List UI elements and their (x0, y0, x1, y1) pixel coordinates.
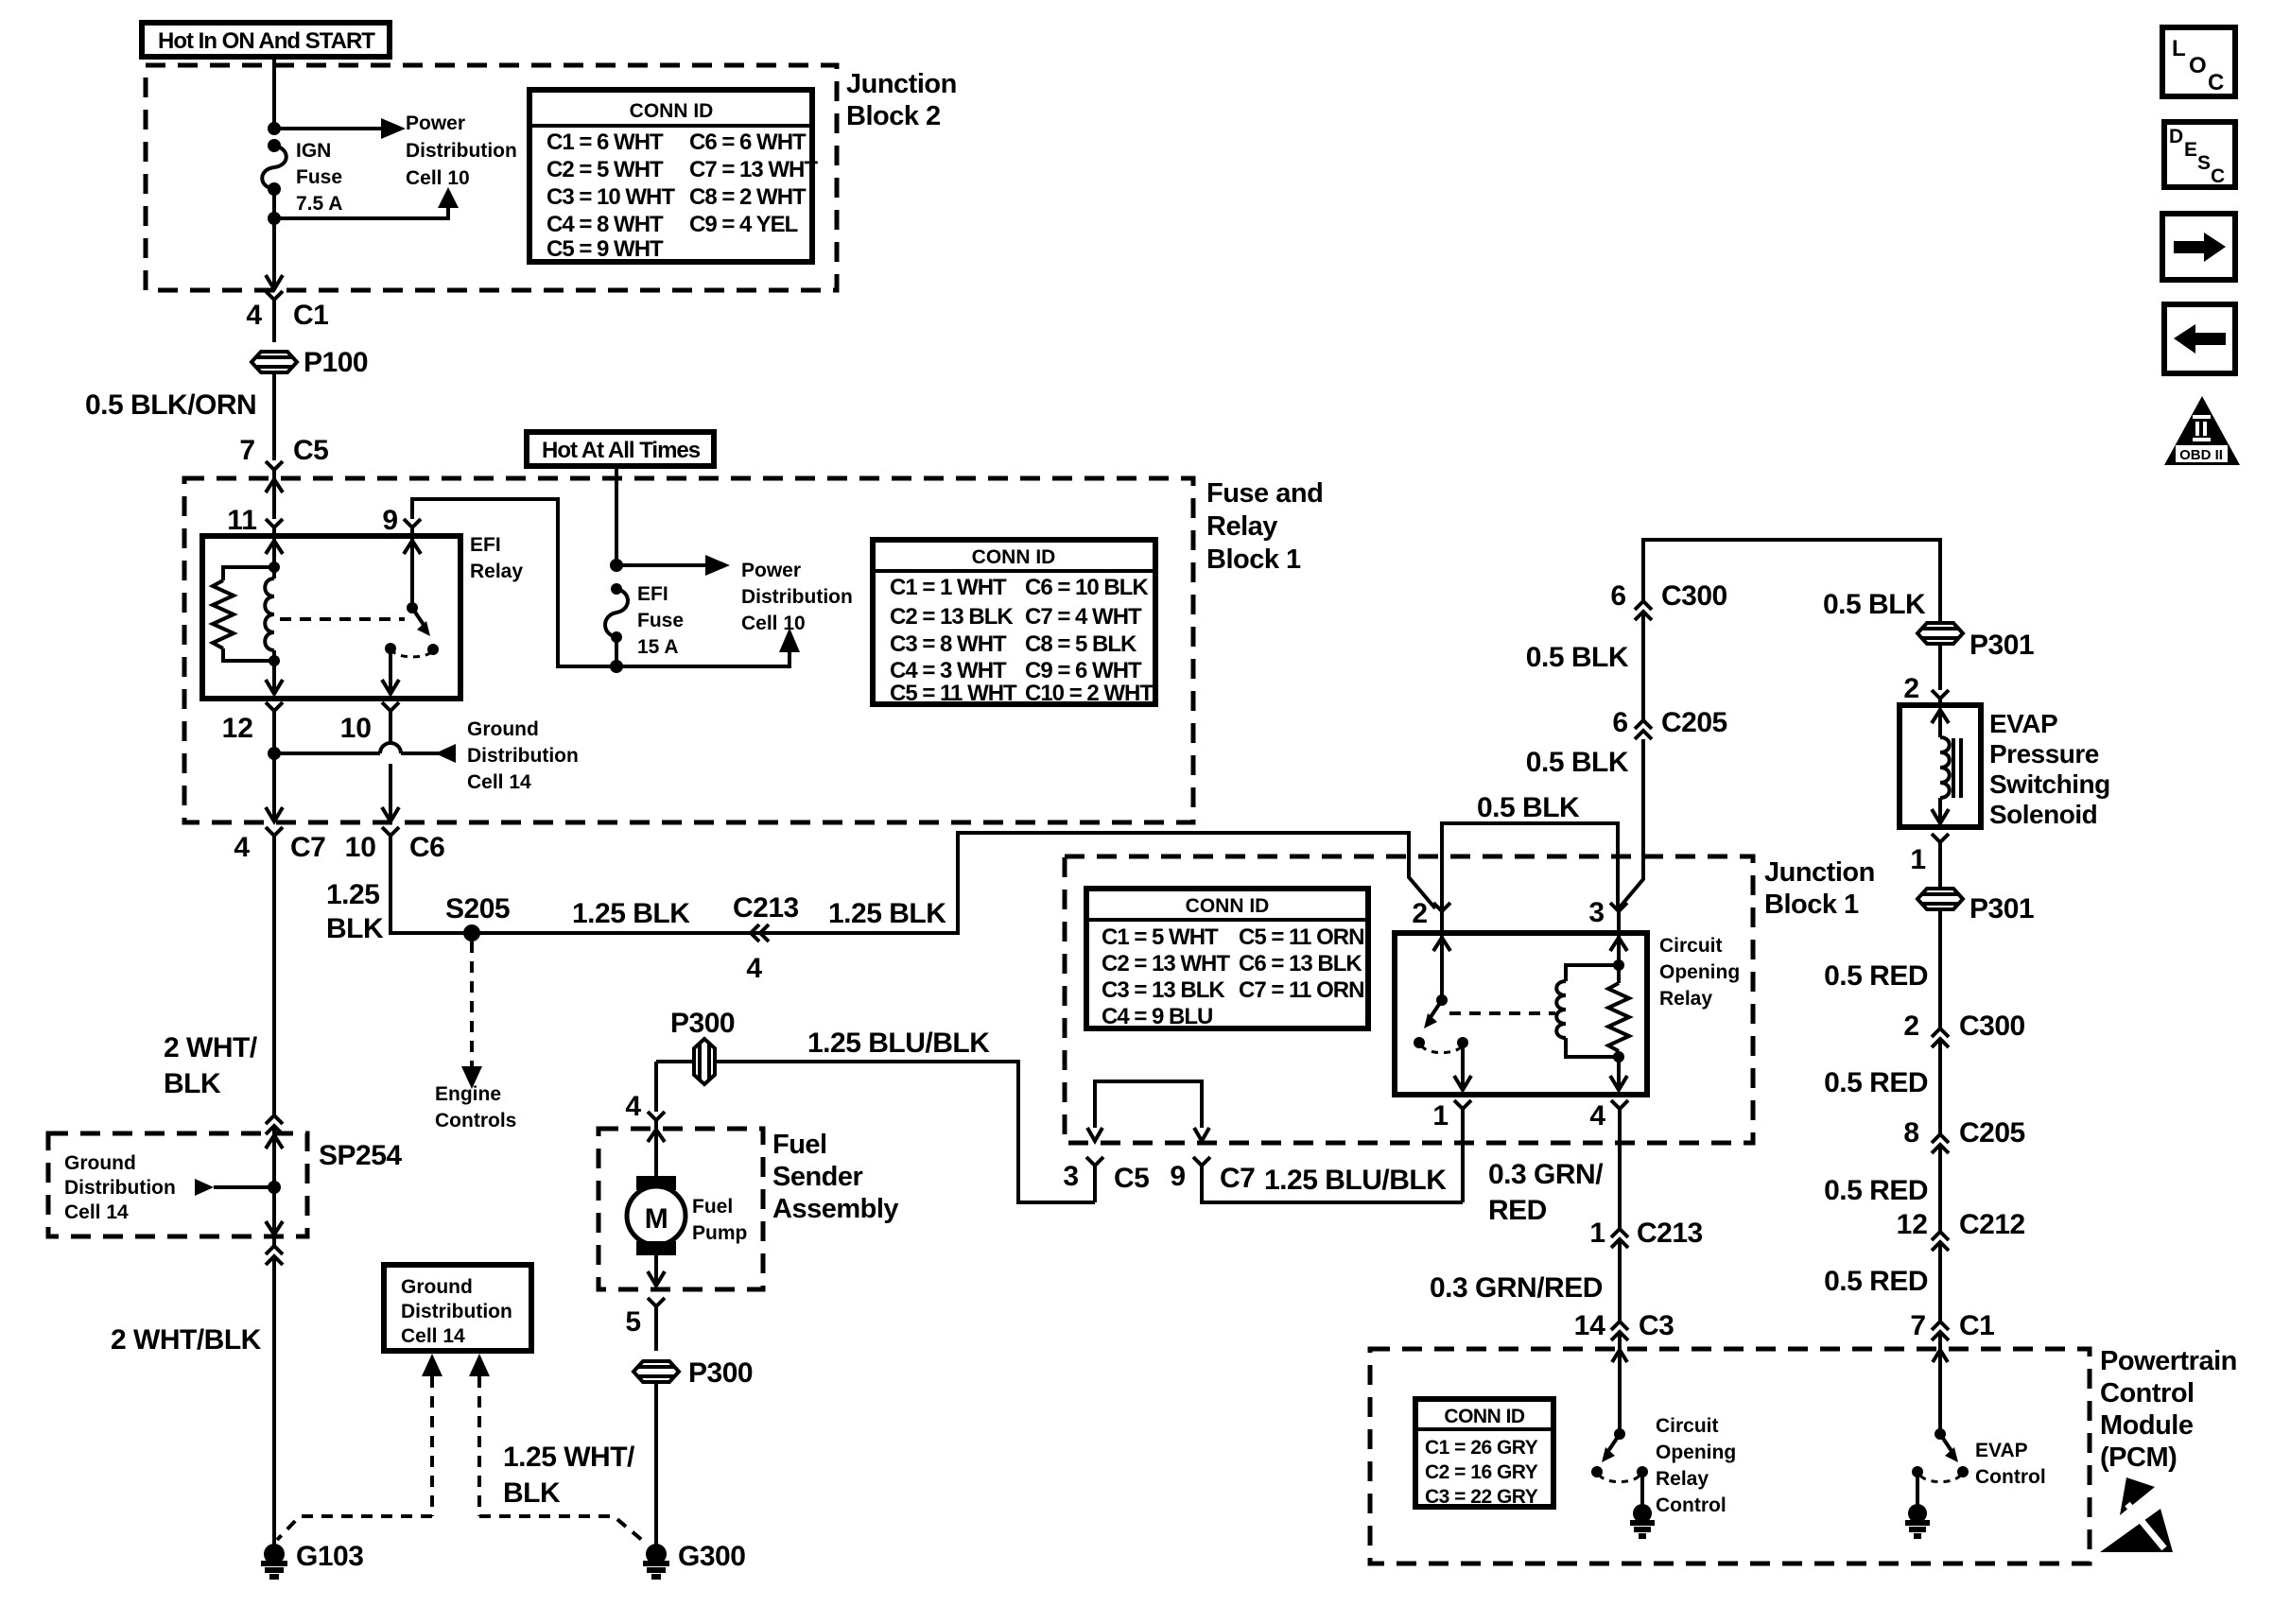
pin 10 connector below relay (340, 702, 399, 821)
Hot In ON And START title box (142, 23, 390, 57)
svg-text:C212: C212 (1959, 1209, 2025, 1240)
connector C300 pin 2 (1903, 1011, 2024, 1134)
connector C205 pin 6 (1612, 707, 1726, 739)
svg-text:C7 = 4 WHT: C7 = 4 WHT (1025, 604, 1142, 630)
svg-text:P301: P301 (1969, 893, 2034, 924)
svg-text:C3 = 10 WHT: C3 = 10 WHT (547, 184, 675, 210)
svg-text:Cell 14: Cell 14 (401, 1325, 465, 1347)
connector C3 pin 14 (1574, 1310, 1674, 1349)
svg-text:Pressure: Pressure (1989, 739, 2099, 769)
svg-text:D: D (2169, 126, 2183, 147)
connector pin 1 below EVAP solenoid (1910, 834, 1949, 889)
svg-text:C2 = 16 GRY: C2 = 16 GRY (1425, 1461, 1538, 1483)
svg-text:Module: Module (2100, 1410, 2194, 1441)
icon arrow right (2162, 214, 2235, 280)
svg-text:Assembly: Assembly (772, 1194, 898, 1224)
svg-text:Opening: Opening (1656, 1442, 1736, 1463)
CONN ID table (Junction Block 1) (1086, 889, 1368, 1029)
svg-text:IGN: IGN (296, 140, 331, 162)
wire branch arrow to Power Distribution Cell 10 (274, 112, 517, 189)
EFI relay box (202, 536, 460, 699)
connector C5 pin 7 (239, 435, 328, 478)
ground G103 (261, 1541, 363, 1577)
svg-text:C6 = 6 WHT: C6 = 6 WHT (689, 130, 807, 155)
svg-text:12: 12 (1897, 1209, 1928, 1240)
wire label 1.25 BLK (left) (326, 879, 384, 944)
svg-text:C6 = 13 BLK: C6 = 13 BLK (1239, 951, 1362, 976)
svg-text:Relay: Relay (1206, 511, 1277, 542)
svg-text:0.5 BLK: 0.5 BLK (1526, 747, 1629, 778)
svg-text:P301: P301 (1969, 630, 2034, 661)
svg-text:C4 = 8 WHT: C4 = 8 WHT (547, 212, 664, 237)
connector C5 pin 3 (1063, 1157, 1149, 1202)
svg-text:1.25 BLK: 1.25 BLK (572, 898, 690, 929)
connector C7 pin 9 (1170, 1157, 1463, 1202)
ground inside PCM (left) (1630, 1504, 1655, 1536)
svg-text:0.5 RED: 0.5 RED (1824, 1266, 1928, 1297)
CONN ID table (Junction Block 2) (529, 90, 818, 262)
svg-text:Ground: Ground (467, 718, 539, 740)
svg-text:0.3 GRN/: 0.3 GRN/ (1488, 1159, 1604, 1190)
svg-text:C8 = 5 BLK: C8 = 5 BLK (1025, 631, 1137, 657)
fuel sender assembly dashed box (599, 1129, 763, 1289)
svg-text:C6 = 10 BLK: C6 = 10 BLK (1025, 575, 1149, 600)
svg-text:C1: C1 (1959, 1310, 1994, 1341)
svg-text:10: 10 (345, 832, 376, 863)
svg-text:Fuel: Fuel (692, 1196, 733, 1218)
svg-text:Junction: Junction (846, 69, 957, 99)
fuse and relay block 1 dashed border (184, 478, 1193, 822)
wire from C205 column into pin 3 (1619, 739, 1643, 908)
svg-text:Powertrain: Powertrain (2100, 1346, 2237, 1376)
svg-text:2: 2 (1412, 898, 1428, 929)
connector pin 3 of circuit opening relay (1588, 897, 1627, 933)
connector P301 (lower) (1917, 889, 2034, 1028)
junction block 1 label (1764, 857, 1875, 920)
svg-text:Cell 14: Cell 14 (64, 1201, 129, 1223)
connector pin 4 below relay (1589, 1100, 1628, 1229)
circuit opening relay control switch (1591, 1350, 1648, 1505)
svg-text:C5: C5 (1114, 1163, 1149, 1194)
svg-text:C4 = 9 BLU: C4 = 9 BLU (1102, 1004, 1212, 1029)
svg-text:C205: C205 (1661, 707, 1727, 738)
svg-text:Fuel: Fuel (772, 1130, 827, 1160)
node junction at EFI fuse top branch (610, 559, 623, 572)
connector C205 pin 8 (1903, 1117, 2024, 1232)
wire label P300 and connector on horizontal wire (656, 1008, 1095, 1202)
svg-text:(PCM): (PCM) (2100, 1443, 2177, 1473)
svg-text:Distribution: Distribution (64, 1177, 176, 1199)
connector C7 pin 4 below block (234, 827, 325, 1115)
fuse EFI Fuse 15 A (605, 583, 684, 666)
svg-text:0.5 BLK/ORN: 0.5 BLK/ORN (85, 389, 256, 421)
svg-text:Opening: Opening (1659, 961, 1740, 983)
svg-text:2: 2 (1903, 673, 1919, 704)
junction block 1 dashed border (1065, 856, 1753, 1143)
svg-text:P100: P100 (304, 347, 368, 378)
svg-text:C8 = 2 WHT: C8 = 2 WHT (689, 184, 807, 210)
svg-text:10: 10 (340, 713, 372, 744)
ground G300 (643, 1541, 745, 1577)
junction block 2 dashed border (146, 65, 837, 290)
relay resistor (parallel loop) (213, 567, 274, 661)
svg-text:RED: RED (1488, 1195, 1547, 1226)
wire down to block border with arrow (266, 218, 283, 289)
relay switch (right side) (382, 536, 439, 694)
svg-text:C2 = 5 WHT: C2 = 5 WHT (547, 157, 664, 182)
connector P301 (upper) (1917, 623, 2034, 690)
svg-text:Block 1: Block 1 (1206, 544, 1301, 575)
svg-text:Controls: Controls (435, 1110, 516, 1132)
connector C1 pin 4 (246, 291, 328, 342)
svg-text:Cell 10: Cell 10 (406, 167, 470, 189)
svg-text:C5 = 11 WHT: C5 = 11 WHT (890, 681, 1017, 706)
svg-text:9: 9 (1170, 1161, 1186, 1192)
svg-text:G300: G300 (678, 1541, 745, 1572)
svg-text:P300: P300 (670, 1008, 735, 1039)
svg-text:C9 = 4 YEL: C9 = 4 YEL (689, 212, 798, 237)
svg-text:EFI: EFI (637, 583, 668, 605)
connector below SP254 box (266, 1246, 283, 1545)
svg-text:0.5 RED: 0.5 RED (1824, 1067, 1928, 1098)
svg-text:Distribution: Distribution (401, 1301, 512, 1322)
svg-text:CONN ID: CONN ID (630, 100, 714, 122)
svg-text:Fuse: Fuse (637, 610, 684, 631)
svg-text:4: 4 (1589, 1100, 1605, 1132)
relay wire pin 12 exit (266, 661, 283, 694)
node junction on pin 12 wire (268, 747, 281, 760)
svg-text:Distribution: Distribution (467, 745, 579, 767)
svg-text:6: 6 (1610, 580, 1626, 612)
relay switch (left) (1414, 933, 1471, 1090)
svg-text:C5: C5 (293, 435, 328, 466)
svg-text:7: 7 (239, 435, 255, 466)
svg-text:0.5 BLK: 0.5 BLK (1823, 589, 1926, 620)
svg-text:0.5 RED: 0.5 RED (1824, 960, 1928, 992)
svg-text:C1 = 5 WHT: C1 = 5 WHT (1102, 924, 1219, 950)
svg-text:C: C (2208, 70, 2224, 95)
svg-text:M: M (645, 1203, 668, 1235)
svg-text:Ground: Ground (64, 1152, 136, 1174)
connector C212 pin 12 (1897, 1209, 2025, 1322)
svg-text:4: 4 (246, 300, 262, 331)
svg-text:Junction: Junction (1764, 857, 1875, 888)
svg-text:4: 4 (625, 1091, 641, 1122)
svg-text:C7 = 13 WHT: C7 = 13 WHT (689, 157, 818, 182)
svg-text:Fuse and: Fuse and (1206, 478, 1323, 509)
svg-text:Block 1: Block 1 (1764, 890, 1859, 920)
svg-text:Switching: Switching (1989, 769, 2110, 799)
svg-text:14: 14 (1574, 1310, 1606, 1341)
svg-text:E: E (2184, 139, 2197, 161)
node junction dot at cell-10 up-arrow branch (268, 212, 281, 225)
svg-text:C205: C205 (1959, 1117, 2025, 1149)
svg-text:Control: Control (1656, 1494, 1726, 1516)
svg-text:C1 = 6 WHT: C1 = 6 WHT (547, 130, 664, 155)
svg-text:1: 1 (1910, 844, 1926, 875)
svg-text:1.25 BLK: 1.25 BLK (828, 898, 946, 929)
svg-text:Hot At All Times: Hot At All Times (542, 438, 701, 463)
connector C6 pin 10 below block (345, 827, 1435, 933)
svg-text:S: S (2197, 152, 2211, 174)
wire branch with up arrow to Cell 10 (616, 628, 800, 666)
svg-text:C2 = 13 BLK: C2 = 13 BLK (890, 604, 1014, 630)
svg-text:Cell 10: Cell 10 (741, 613, 806, 634)
svg-text:C9 = 6 WHT: C9 = 6 WHT (1025, 658, 1142, 683)
dashed ground wire to G300 (469, 1354, 643, 1541)
svg-text:0.5 BLK: 0.5 BLK (1526, 642, 1629, 673)
connector C213 pin 4 (horizontal) (733, 892, 799, 984)
svg-text:C1: C1 (293, 300, 328, 331)
ESD sensitive symbol (2100, 1477, 2173, 1552)
node junction at EFI fuse bottom (610, 660, 623, 673)
svg-text:O: O (2189, 53, 2206, 78)
svg-text:C300: C300 (1661, 580, 1727, 612)
relay coil with arrow (left branch) (265, 536, 283, 666)
node junction dot at power-distribution branch (268, 122, 281, 135)
wire branch with up arrow to Cell 10 (274, 187, 459, 218)
svg-text:C10 = 2 WHT: C10 = 2 WHT (1025, 681, 1154, 706)
svg-text:Distribution: Distribution (741, 586, 853, 608)
svg-text:C4 = 3 WHT: C4 = 3 WHT (890, 658, 1007, 683)
svg-text:C3 = 13 BLK: C3 = 13 BLK (1102, 977, 1225, 1003)
svg-text:C7 = 11 ORN: C7 = 11 ORN (1239, 977, 1363, 1003)
EVAP control switch (1912, 1350, 1969, 1505)
svg-text:12: 12 (222, 713, 253, 744)
pin 9 wire from top run (382, 499, 616, 666)
svg-text:Control: Control (2100, 1378, 2195, 1408)
connector pin 4 at fuel sender (625, 1062, 665, 1129)
EVAP solenoid label (1989, 709, 2110, 829)
svg-text:Relay: Relay (1659, 988, 1712, 1010)
svg-text:Block 2: Block 2 (846, 101, 941, 131)
ground inside PCM (right) (1905, 1504, 1930, 1536)
relay dashed actuation link (280, 617, 405, 621)
svg-text:Relay: Relay (1656, 1468, 1709, 1490)
svg-text:Circuit: Circuit (1656, 1415, 1719, 1437)
wire label 1.25 WHT/BLK (503, 1442, 635, 1509)
svg-text:0.5 RED: 0.5 RED (1824, 1175, 1928, 1206)
svg-text:C1 = 26 GRY: C1 = 26 GRY (1425, 1437, 1538, 1459)
wire 0.5 BLK bridge over relay (1442, 792, 1618, 908)
wire label 0.3 GRN/RED (upper) (1488, 1159, 1604, 1226)
svg-text:9: 9 (382, 505, 398, 536)
svg-text:4: 4 (746, 953, 762, 984)
svg-text:CONN ID: CONN ID (1186, 895, 1270, 917)
svg-text:BLK: BLK (326, 913, 384, 944)
junction block 2 label (846, 69, 957, 131)
svg-text:EFI: EFI (470, 534, 501, 556)
jumper between C5 and C7 inside junction block 1 (1087, 1081, 1209, 1141)
svg-text:3: 3 (1063, 1161, 1079, 1192)
svg-text:C: C (2211, 165, 2225, 187)
svg-text:L: L (2172, 36, 2185, 61)
svg-text:C213: C213 (733, 892, 799, 924)
connector P100 (252, 347, 368, 460)
svg-text:Distribution: Distribution (406, 140, 517, 162)
svg-text:G103: G103 (296, 1541, 363, 1572)
CONN ID table (Fuse and Relay Block 1) (873, 540, 1155, 706)
svg-text:2 WHT/: 2 WHT/ (164, 1032, 258, 1063)
svg-text:C6: C6 (409, 832, 444, 863)
arrow to Power Distribution Cell 10 (616, 555, 853, 634)
wire entering block with up arrow, pin 11 (227, 479, 283, 536)
svg-text:2 WHT/BLK: 2 WHT/BLK (111, 1324, 262, 1356)
PCM label (2100, 1346, 2237, 1473)
svg-text:1.25 WHT/: 1.25 WHT/ (503, 1442, 635, 1473)
svg-text:1.25 BLU/BLK: 1.25 BLU/BLK (807, 1028, 990, 1059)
connector pin 1 below relay (1432, 1100, 1471, 1202)
fuel sender assembly label (772, 1130, 898, 1224)
svg-text:0.3 GRN/RED: 0.3 GRN/RED (1430, 1272, 1603, 1304)
svg-text:Fuse: Fuse (296, 166, 342, 188)
svg-text:CONN ID: CONN ID (972, 546, 1056, 568)
svg-text:C3 = 8 WHT: C3 = 8 WHT (890, 631, 1007, 657)
node S205 (445, 893, 510, 942)
svg-text:Engine: Engine (435, 1083, 501, 1105)
svg-text:1: 1 (1432, 1100, 1449, 1132)
svg-text:C5 = 11 ORN: C5 = 11 ORN (1239, 924, 1363, 950)
svg-text:6: 6 (1612, 707, 1628, 738)
PCM dashed border (1370, 1349, 2090, 1564)
pin 12 connector below relay (222, 702, 283, 821)
fuse and relay block 1 label (1206, 478, 1323, 575)
svg-text:11: 11 (227, 505, 257, 536)
svg-text:0.5 BLK: 0.5 BLK (1477, 792, 1580, 823)
connector C300 pin 6 (top) (1610, 580, 1726, 720)
connector P300 (lower) (633, 1357, 753, 1545)
wire from top of 0.5 BLK column to EVAP (1643, 540, 1940, 623)
connector pin 2 at EVAP solenoid (1903, 673, 1949, 705)
svg-text:7: 7 (1910, 1310, 1926, 1341)
motor fuel pump (627, 1130, 747, 1286)
connector pin 2 of circuit opening relay (1412, 898, 1450, 933)
relay coil and resistor (right) (1556, 933, 1629, 1090)
circuit opening relay box (1395, 933, 1647, 1095)
svg-text:CONN ID: CONN ID (1444, 1406, 1525, 1427)
splice SP254 connector (266, 1115, 402, 1246)
relay dashed actuation link (1449, 1011, 1555, 1015)
svg-text:C5 = 9 WHT: C5 = 9 WHT (547, 236, 664, 262)
wire label 2 WHT/BLK (upper) (164, 1032, 258, 1099)
svg-text:Pump: Pump (692, 1222, 747, 1244)
icon arrow left (2164, 304, 2235, 373)
arrow from ground distribution text to wire (195, 1179, 281, 1196)
ground distribution branch wire with hop and left arrow (274, 718, 579, 793)
icon OBD II triangle (2164, 396, 2240, 465)
svg-text:OBD II: OBD II (2179, 447, 2223, 463)
svg-text:1: 1 (1589, 1218, 1605, 1249)
svg-text:1.25 BLU/BLK: 1.25 BLU/BLK (1264, 1165, 1447, 1196)
svg-text:Sender: Sender (772, 1162, 863, 1192)
CONN ID table (PCM) (1415, 1399, 1553, 1508)
svg-text:5: 5 (625, 1306, 641, 1338)
wire from Hot In ON And START down into block (272, 57, 276, 129)
dashed arrow from S205 to Engine Controls (435, 942, 516, 1132)
svg-text:Cell 14: Cell 14 (467, 771, 531, 793)
connector pin 5 below fuel sender (625, 1298, 665, 1351)
Hot At All Times title box (527, 432, 714, 466)
dashed ground wire to G103 (277, 1354, 442, 1540)
svg-text:C1 = 1 WHT: C1 = 1 WHT (890, 575, 1007, 600)
svg-text:2: 2 (1903, 1011, 1919, 1042)
svg-text:Ground: Ground (401, 1276, 473, 1298)
circuit opening relay control label (1656, 1415, 1736, 1516)
svg-text:Relay: Relay (470, 561, 523, 582)
svg-text:C213: C213 (1637, 1218, 1703, 1249)
connector C213 pin 1 (1589, 1218, 1702, 1322)
svg-text:Hot In ON And START: Hot In ON And START (158, 28, 375, 54)
svg-text:C7: C7 (1220, 1163, 1255, 1194)
EVAP control label (1975, 1440, 2046, 1488)
svg-text:15 A: 15 A (637, 636, 679, 658)
svg-text:SP254: SP254 (319, 1140, 402, 1171)
svg-text:8: 8 (1903, 1117, 1919, 1149)
ground distribution cell 14 dashed box (left) (48, 1133, 307, 1236)
svg-text:7.5 A: 7.5 A (296, 193, 342, 215)
svg-text:3: 3 (1588, 897, 1605, 928)
arrows at block bottom border (266, 807, 399, 821)
icon DESC (2164, 122, 2235, 187)
svg-text:BLK: BLK (503, 1477, 561, 1509)
connector C1 pin 7 (1910, 1310, 1994, 1349)
ground distribution cell 14 box (solid) (384, 1265, 531, 1351)
svg-text:BLK: BLK (164, 1068, 221, 1099)
svg-text:EVAP: EVAP (1975, 1440, 2028, 1461)
svg-text:EVAP: EVAP (1989, 709, 2057, 738)
svg-text:S205: S205 (445, 893, 510, 924)
svg-text:Power: Power (741, 560, 801, 581)
svg-text:C300: C300 (1959, 1011, 2025, 1042)
svg-text:P300: P300 (688, 1357, 753, 1389)
wire from Hot At All Times down to EFI fuse (615, 466, 618, 565)
svg-text:Solenoid: Solenoid (1989, 800, 2097, 829)
EVAP pressure switching solenoid box (1900, 705, 1981, 827)
svg-text:C3: C3 (1639, 1310, 1674, 1341)
svg-text:Control: Control (1975, 1466, 2046, 1488)
svg-text:C2 = 13 WHT: C2 = 13 WHT (1102, 951, 1230, 976)
svg-text:4: 4 (234, 832, 250, 863)
fuse IGN Fuse 7.5 A (262, 139, 342, 218)
icon LOC (2162, 27, 2235, 96)
svg-text:Circuit: Circuit (1659, 935, 1723, 957)
svg-text:C3 = 22 GRY: C3 = 22 GRY (1425, 1486, 1538, 1508)
svg-text:1.25: 1.25 (326, 879, 379, 910)
svg-text:Power: Power (406, 112, 465, 134)
svg-text:C7: C7 (290, 832, 325, 863)
